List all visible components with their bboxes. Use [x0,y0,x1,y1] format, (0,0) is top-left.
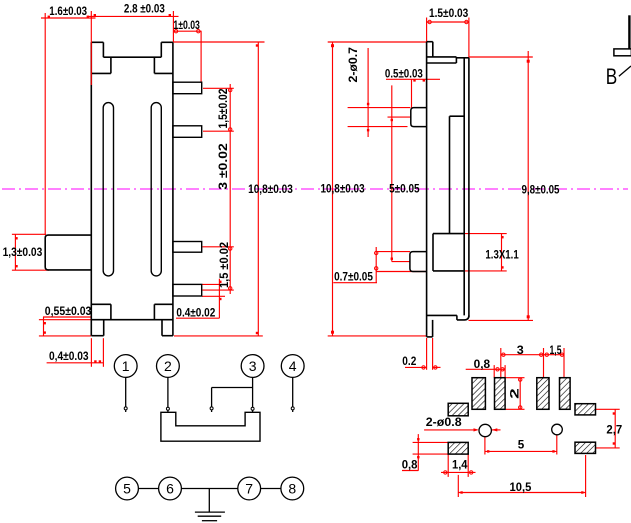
svg-text:3: 3 [249,358,257,374]
svg-text:2: 2 [508,388,522,399]
svg-text:1.6±0.03: 1.6±0.03 [49,4,87,18]
svg-text:7: 7 [245,480,253,496]
svg-text:2-ø0.8: 2-ø0.8 [426,415,462,429]
svg-text:B: B [606,64,618,89]
svg-text:10,5: 10,5 [510,480,532,494]
svg-text:1.3X1.1: 1.3X1.1 [485,247,519,261]
svg-text:0,55±0.03: 0,55±0.03 [45,304,92,318]
svg-text:1,5: 1,5 [550,343,562,357]
svg-text:0.7±0.05: 0.7±0.05 [334,269,373,283]
svg-text:0,4±0.03: 0,4±0.03 [49,349,89,363]
svg-text:0,8: 0,8 [474,357,491,371]
svg-text:3: 3 [517,343,524,357]
svg-text:0.5±0.03: 0.5±0.03 [385,67,423,81]
svg-text:0,8: 0,8 [402,458,418,472]
svg-text:5: 5 [123,480,131,496]
svg-text:5: 5 [518,437,525,451]
svg-text:9,8±0.05: 9,8±0.05 [522,182,560,196]
svg-text:6: 6 [166,480,174,496]
svg-text:2.8 ±0.03: 2.8 ±0.03 [124,1,165,15]
svg-text:10,8±0.03: 10,8±0.03 [321,182,365,196]
svg-text:2: 2 [164,358,172,374]
svg-text:1±0.03: 1±0.03 [173,18,200,32]
svg-text:2,7: 2,7 [606,423,622,437]
svg-text:4: 4 [289,358,297,374]
svg-text:1,5±0.02: 1,5±0.02 [216,88,230,128]
svg-text:0.2: 0.2 [402,354,416,368]
svg-text:1,5 ±0.02: 1,5 ±0.02 [217,242,231,288]
svg-text:0.4±0.02: 0.4±0.02 [176,306,215,320]
svg-text:1,4: 1,4 [452,458,468,472]
svg-text:1.5±0.03: 1.5±0.03 [429,6,469,20]
svg-text:3 ±0.02: 3 ±0.02 [216,143,230,190]
svg-text:2-ø0.7: 2-ø0.7 [346,47,360,83]
svg-text:10,8±0.03: 10,8±0.03 [248,182,293,196]
svg-text:8: 8 [288,480,296,496]
svg-text:5±0.05: 5±0.05 [389,182,420,196]
svg-text:1: 1 [122,358,130,374]
svg-text:1,3±0.03: 1,3±0.03 [3,245,43,259]
